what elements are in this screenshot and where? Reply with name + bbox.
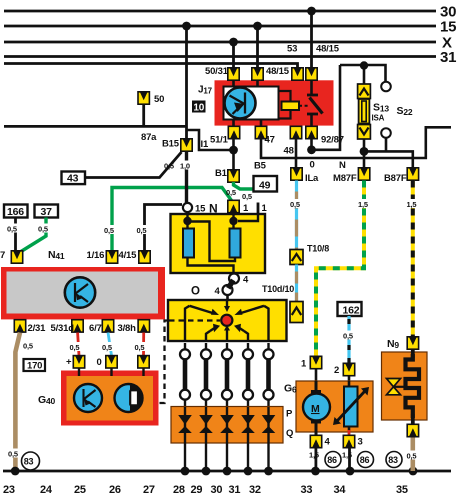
svg-text:10: 10 bbox=[193, 103, 204, 114]
svg-text:27: 27 bbox=[143, 484, 155, 496]
wire from bus 30 down to relay terminal bbox=[307, 7, 316, 68]
svg-text:N41: N41 bbox=[48, 249, 65, 261]
svg-text:25: 25 bbox=[74, 484, 86, 496]
wire from bus 15 down to B15 bbox=[182, 22, 191, 139]
bus line 31 bbox=[4, 49, 456, 66]
N9 cold start valve bbox=[382, 338, 428, 420]
distributor rotor bbox=[221, 315, 232, 326]
connector 50 bbox=[138, 92, 164, 127]
svg-text:43: 43 bbox=[67, 173, 79, 185]
wire 0,5 from B15 to 43 bbox=[86, 152, 182, 178]
label box 49 bbox=[254, 176, 278, 192]
ground node track 28 bbox=[181, 467, 190, 476]
svg-text:50/31: 50/31 bbox=[205, 66, 229, 77]
wire N41 4/15 to coil terminal 15 bbox=[136, 205, 182, 251]
svg-text:B15: B15 bbox=[162, 139, 180, 150]
svg-text:O: O bbox=[191, 286, 200, 298]
wire 162 blue-black to G6 terminal 2 bbox=[342, 316, 357, 363]
svg-text:5/31d: 5/31d bbox=[51, 323, 75, 334]
svg-text:7: 7 bbox=[0, 250, 5, 261]
svg-text:ILa: ILa bbox=[305, 173, 319, 184]
svg-text:34: 34 bbox=[334, 484, 347, 496]
bus line 30 bbox=[4, 4, 456, 21]
G6 pump motor M bbox=[303, 381, 330, 435]
svg-text:31: 31 bbox=[440, 49, 456, 66]
svg-text:0,5: 0,5 bbox=[38, 225, 48, 234]
spark plug wire 5 with connectors bbox=[264, 343, 274, 407]
distributor O box bbox=[168, 286, 287, 342]
blue wire 6/7 to G40 0 bbox=[102, 333, 117, 356]
ground symbol 86 first bbox=[325, 452, 341, 468]
svg-text:N: N bbox=[339, 160, 346, 171]
svg-text:I1: I1 bbox=[201, 139, 209, 150]
relay electronic unit bbox=[224, 87, 279, 120]
N41 TCI control unit box bbox=[1, 249, 165, 319]
wire 166 to N41 terminal 7 bbox=[7, 218, 22, 251]
mechanical link dashed bbox=[159, 321, 221, 404]
N9 heater resistor zigzag bbox=[406, 354, 420, 418]
wire from bus 15 down to relay terminal 48/15 bbox=[253, 22, 262, 68]
svg-text:+: + bbox=[66, 357, 72, 368]
green wire B1 to 49 bbox=[226, 182, 254, 201]
track numbers bbox=[3, 484, 408, 496]
brown wire 2/31 to ground bbox=[15, 333, 32, 469]
svg-text:1,5: 1,5 bbox=[309, 451, 319, 460]
wire 48 relay to ILa bbox=[284, 139, 315, 171]
ignition coil N box bbox=[171, 214, 266, 273]
ground symbol 86 second bbox=[358, 452, 374, 468]
ground node track 31 bbox=[244, 467, 253, 476]
label box 162 bbox=[338, 302, 362, 316]
wire top bracket to S13 and S22 bbox=[340, 61, 386, 84]
wire 53 from left edge to relay terminal bbox=[4, 44, 340, 69]
wire B87F yellow-black to N9 bbox=[406, 181, 421, 338]
svg-text:26: 26 bbox=[109, 484, 121, 496]
relay terminal 50/31 bbox=[205, 66, 239, 80]
svg-text:0,5: 0,5 bbox=[290, 200, 300, 209]
svg-text:29: 29 bbox=[191, 484, 203, 496]
svg-text:M: M bbox=[311, 403, 320, 415]
relay terminal 48 / 92-87 bottom pair bbox=[290, 126, 343, 145]
svg-text:B1: B1 bbox=[215, 168, 228, 179]
coil pin 1 second bbox=[258, 203, 268, 216]
red wire 3/8h to G40 minus bbox=[134, 333, 149, 356]
relay terminal 48/15 top bbox=[252, 66, 290, 80]
connector ILa bbox=[291, 168, 319, 184]
svg-text:0,5: 0,5 bbox=[343, 332, 353, 341]
bus line 15 bbox=[4, 19, 456, 36]
svg-text:166: 166 bbox=[7, 206, 24, 218]
coil secondary winding bbox=[230, 229, 241, 258]
svg-text:J17: J17 bbox=[198, 85, 213, 96]
spark gap P/Q 4 bbox=[241, 407, 255, 443]
red wire 5/31d to G40 plus bbox=[69, 333, 84, 356]
relay contact bbox=[299, 80, 323, 125]
svg-text:1,5: 1,5 bbox=[358, 200, 368, 209]
svg-text:31: 31 bbox=[229, 484, 241, 496]
svg-text:48: 48 bbox=[284, 146, 294, 157]
svg-text:83: 83 bbox=[388, 455, 398, 465]
wire HT to distributor bbox=[226, 295, 229, 300]
node at 51/1 to B1 bbox=[229, 139, 238, 170]
relay internal pins bbox=[234, 80, 262, 125]
wire spark 4 to ground bbox=[247, 443, 249, 471]
svg-text:0,5: 0,5 bbox=[70, 343, 80, 352]
svg-text:T10/8: T10/8 bbox=[307, 244, 329, 254]
G40 terminal minus bbox=[138, 356, 149, 368]
ground node track 30 bbox=[223, 467, 232, 476]
fuse S13 bbox=[358, 84, 390, 139]
wire 92/87 to fuse feed bbox=[307, 65, 340, 154]
relay coil bbox=[279, 91, 300, 119]
connector T10d/10 bbox=[262, 284, 303, 323]
connector B87F bbox=[384, 168, 419, 184]
coil terminal 4 HT connector bbox=[215, 274, 250, 298]
svg-text:1,5: 1,5 bbox=[407, 200, 417, 209]
svg-text:0,5: 0,5 bbox=[137, 226, 147, 235]
spark gap P/Q 3 bbox=[220, 407, 234, 443]
svg-text:0,5: 0,5 bbox=[102, 343, 112, 352]
svg-text:N9: N9 bbox=[387, 338, 399, 350]
G6 fuel pump box bbox=[284, 369, 373, 432]
wire 47 to stub bbox=[254, 127, 451, 171]
svg-text:48/15: 48/15 bbox=[316, 44, 340, 55]
svg-text:ISA: ISA bbox=[372, 114, 385, 123]
N9 brown wire to ground bbox=[406, 438, 420, 472]
svg-text:0,5: 0,5 bbox=[242, 192, 252, 201]
spark gap P/Q 2 bbox=[199, 407, 213, 443]
svg-text:B87F: B87F bbox=[384, 173, 407, 184]
spark plug wire 2 with connectors bbox=[201, 343, 211, 407]
ground rail bbox=[3, 470, 451, 473]
wire T10/8 to T10d/10 bbox=[295, 265, 298, 302]
N41 terminal 7 bbox=[0, 250, 23, 263]
spark gap P/Q 5 bbox=[262, 407, 276, 443]
bus line X bbox=[4, 35, 452, 52]
connector M87F bbox=[333, 168, 370, 184]
spark plug wire 4 with connectors bbox=[243, 343, 253, 407]
svg-text:24: 24 bbox=[40, 484, 53, 496]
N41 terminal 3/8h bbox=[118, 320, 150, 334]
svg-text:86: 86 bbox=[360, 455, 370, 465]
svg-text:0,5: 0,5 bbox=[104, 226, 114, 235]
svg-text:86: 86 bbox=[327, 455, 337, 465]
spark gap P/Q 1 bbox=[178, 407, 192, 443]
svg-text:30: 30 bbox=[211, 484, 223, 496]
svg-text:Q: Q bbox=[286, 428, 293, 439]
svg-text:50: 50 bbox=[154, 94, 164, 105]
wire branch from B15 column to node 51/1 bbox=[187, 130, 231, 150]
svg-text:S22: S22 bbox=[397, 105, 413, 117]
svg-text:B5: B5 bbox=[254, 161, 267, 172]
svg-text:32: 32 bbox=[249, 484, 261, 496]
spark plug wire 3 with connectors bbox=[222, 343, 232, 407]
svg-text:0,5: 0,5 bbox=[226, 188, 236, 197]
svg-text:87a: 87a bbox=[141, 132, 157, 143]
N41 terminal 5/31d bbox=[51, 320, 84, 334]
coil primary winding bbox=[183, 229, 194, 258]
ignition coil N label and terminal 15 ring bbox=[183, 202, 218, 216]
label box 37 bbox=[35, 205, 59, 219]
svg-text:47: 47 bbox=[265, 135, 275, 146]
wire gauge 0,5 bottom left bbox=[8, 449, 23, 459]
svg-text:0,5: 0,5 bbox=[23, 342, 33, 351]
svg-text:M87F: M87F bbox=[333, 173, 357, 184]
svg-text:6/7: 6/7 bbox=[89, 323, 102, 334]
connector T10/8 bbox=[290, 244, 329, 265]
wire spark 2 to ground bbox=[205, 443, 207, 471]
connector B1 bbox=[215, 168, 239, 182]
svg-text:23: 23 bbox=[3, 484, 15, 496]
label box 170 bbox=[24, 359, 46, 372]
relay terminal 53 top pair bbox=[292, 68, 317, 80]
N9 terminal top bbox=[407, 337, 418, 358]
fuse position S22 bbox=[381, 82, 413, 152]
svg-text:0,5: 0,5 bbox=[8, 450, 18, 459]
svg-text:S13: S13 bbox=[373, 102, 389, 114]
wire G6 3 to ground bbox=[342, 448, 352, 471]
svg-text:0,5: 0,5 bbox=[135, 343, 145, 352]
G6 terminal 1 bbox=[301, 356, 322, 369]
coil terminal 1 connector bbox=[228, 200, 249, 214]
svg-text:0: 0 bbox=[97, 357, 102, 368]
wire 87a bbox=[4, 126, 187, 143]
G6 sender resistor bbox=[333, 381, 369, 436]
svg-text:0,5: 0,5 bbox=[7, 225, 17, 234]
svg-text:35: 35 bbox=[396, 484, 408, 496]
ground node track 29 bbox=[202, 467, 211, 476]
wire 37 green to N41 terminal 7 bbox=[21, 218, 52, 252]
relay position label 10 bbox=[192, 101, 206, 114]
wire ILa blue-brown to T10/8 bbox=[290, 181, 305, 250]
svg-text:3: 3 bbox=[358, 437, 363, 448]
svg-text:2: 2 bbox=[334, 365, 339, 376]
svg-text:0,5: 0,5 bbox=[407, 452, 417, 461]
N9 terminal bottom bbox=[407, 414, 418, 437]
N41 terminal 6/7 bbox=[89, 320, 114, 334]
svg-text:0,5: 0,5 bbox=[164, 162, 174, 171]
wire 1,0 from B15 to coil terminal 15 bbox=[179, 152, 193, 203]
ground node track 23 bbox=[11, 467, 20, 476]
svg-text:48/15: 48/15 bbox=[266, 66, 290, 77]
G40 hall sender box bbox=[38, 371, 159, 426]
label box 43 bbox=[62, 172, 86, 185]
G40 terminal 0 bbox=[97, 356, 118, 368]
svg-text:4/15: 4/15 bbox=[119, 250, 138, 261]
N41 terminal 4/15 bbox=[119, 250, 151, 263]
svg-text:G40: G40 bbox=[38, 394, 55, 406]
svg-text:1,5: 1,5 bbox=[342, 451, 352, 460]
svg-text:162: 162 bbox=[343, 304, 360, 316]
G40 terminal plus bbox=[66, 356, 85, 368]
N41 terminal 1/16 bbox=[87, 250, 118, 263]
svg-text:2/31: 2/31 bbox=[28, 323, 47, 334]
svg-text:51/1: 51/1 bbox=[210, 135, 229, 146]
ground symbol 83 right bbox=[386, 452, 402, 468]
wire spark 5 to ground bbox=[267, 443, 269, 471]
N9 valve symbol bbox=[387, 379, 406, 395]
svg-text:P: P bbox=[286, 409, 293, 420]
G6 terminal 2 bbox=[334, 363, 355, 376]
svg-text:15: 15 bbox=[440, 19, 456, 36]
connector B15 bbox=[162, 139, 192, 152]
G40 shutter wheel circle bbox=[115, 384, 144, 412]
green wire N41 1/16 to coil terminal 1 bbox=[104, 188, 232, 251]
N41 terminal 2/31 bbox=[14, 320, 46, 334]
svg-text:49: 49 bbox=[259, 179, 271, 191]
ground node track 33 bbox=[311, 467, 320, 476]
svg-text:33: 33 bbox=[301, 484, 313, 496]
svg-text:53: 53 bbox=[287, 44, 297, 55]
wire spark 3 to ground bbox=[226, 443, 228, 471]
G6 terminal 4 bbox=[310, 435, 330, 447]
svg-text:1/16: 1/16 bbox=[87, 250, 105, 261]
svg-text:1,0: 1,0 bbox=[180, 162, 190, 171]
distributor internal arrows bbox=[185, 300, 269, 341]
G6 terminal 3 bbox=[343, 435, 362, 447]
wire from bus X down to relay terminal 50/31 bbox=[229, 38, 238, 68]
svg-text:G6: G6 bbox=[284, 383, 297, 395]
relay J17 box bbox=[198, 80, 334, 125]
svg-text:T10d/10: T10d/10 bbox=[262, 284, 294, 294]
relay terminal 47 bbox=[255, 126, 274, 145]
ground node track 35 bbox=[409, 467, 418, 476]
coil internal wiring bbox=[183, 212, 258, 274]
ground symbol 83 left bbox=[22, 452, 40, 470]
svg-text:83: 83 bbox=[24, 456, 34, 466]
wire spark 1 to ground bbox=[184, 443, 186, 471]
label box 166 bbox=[4, 205, 28, 219]
G40 terminal pins bbox=[79, 369, 144, 377]
svg-text:3/8h: 3/8h bbox=[118, 323, 137, 334]
spark plug connectors P and plugs Q box bbox=[171, 407, 293, 444]
G40 hall element circle bbox=[74, 384, 102, 412]
svg-text:28: 28 bbox=[173, 484, 185, 496]
svg-text:170: 170 bbox=[27, 361, 42, 372]
wire S13 to M87F and B87F bbox=[339, 139, 413, 171]
svg-text:37: 37 bbox=[41, 206, 53, 218]
wire M87F yellow-green to G6 terminal 1 bbox=[316, 181, 372, 357]
ground node track 34 bbox=[346, 467, 355, 476]
wire G6 4 to ground bbox=[309, 448, 319, 471]
spark plug wire 1 with connectors bbox=[180, 343, 190, 407]
ground node track 32 bbox=[264, 467, 273, 476]
relay terminal 51/1 bbox=[210, 126, 240, 145]
svg-text:0: 0 bbox=[310, 160, 315, 171]
